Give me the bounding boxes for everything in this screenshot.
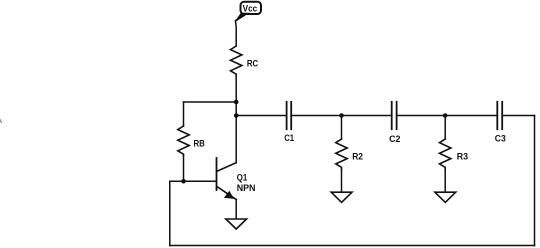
transistor Q1	[217, 158, 256, 200]
stray mark left edge	[0, 120, 1, 123]
wire collector to transistor	[235, 116, 237, 163]
wire R3 bottom lead	[444, 170, 446, 193]
wire emitter to ground	[235, 200, 237, 219]
wire node R3 to C3	[445, 115, 497, 117]
node collector junction dot	[234, 113, 239, 118]
capacitor C1	[284, 102, 294, 144]
capacitor C3	[495, 102, 506, 145]
wire base	[170, 180, 217, 182]
resistor R2	[336, 139, 363, 169]
wire C1 to node R2	[291, 115, 341, 117]
ground (emitter)	[226, 219, 247, 229]
svg-text:NPN: NPN	[237, 183, 256, 194]
wire C2 to node R3	[397, 115, 446, 117]
wire node to C1	[236, 115, 286, 117]
resistor RC	[231, 46, 259, 77]
node A junction dot	[234, 100, 239, 105]
wire RC bottom to node	[235, 77, 237, 103]
svg-text:C2: C2	[389, 134, 400, 145]
wire R2 bottom lead	[341, 170, 343, 193]
wire feedback right vertical	[534, 116, 536, 246]
resistor RB	[178, 126, 205, 155]
ground (R2)	[331, 192, 352, 202]
ground (R3)	[435, 192, 456, 202]
wire RB top lead	[183, 102, 185, 126]
wire node A to RB top	[184, 101, 237, 103]
wire Vcc to RC	[234, 21, 237, 47]
node R2 junction dot	[339, 113, 344, 118]
svg-text:RC: RC	[247, 59, 258, 70]
power flag Vcc	[235, 2, 261, 22]
svg-text:R2: R2	[352, 152, 363, 163]
svg-text:Vcc: Vcc	[243, 3, 258, 14]
wire R3 top lead	[444, 116, 446, 140]
svg-text:C3: C3	[495, 134, 506, 145]
svg-text:RB: RB	[194, 139, 205, 150]
wire feedback bottom rail	[170, 245, 535, 247]
svg-text:R3: R3	[457, 152, 468, 163]
node R3 junction dot	[443, 113, 448, 118]
svg-text:C1: C1	[284, 133, 294, 144]
wire C3 to right edge	[502, 115, 534, 117]
node base junction dot	[181, 179, 186, 184]
wire R2 top lead	[341, 116, 343, 140]
wire RB bottom lead	[183, 155, 185, 181]
wire feedback left vertical	[169, 181, 171, 245]
capacitor C2	[389, 102, 400, 145]
resistor R3	[440, 139, 469, 169]
wire collector vertical	[235, 102, 237, 116]
wire node R2 to C2	[342, 115, 392, 117]
